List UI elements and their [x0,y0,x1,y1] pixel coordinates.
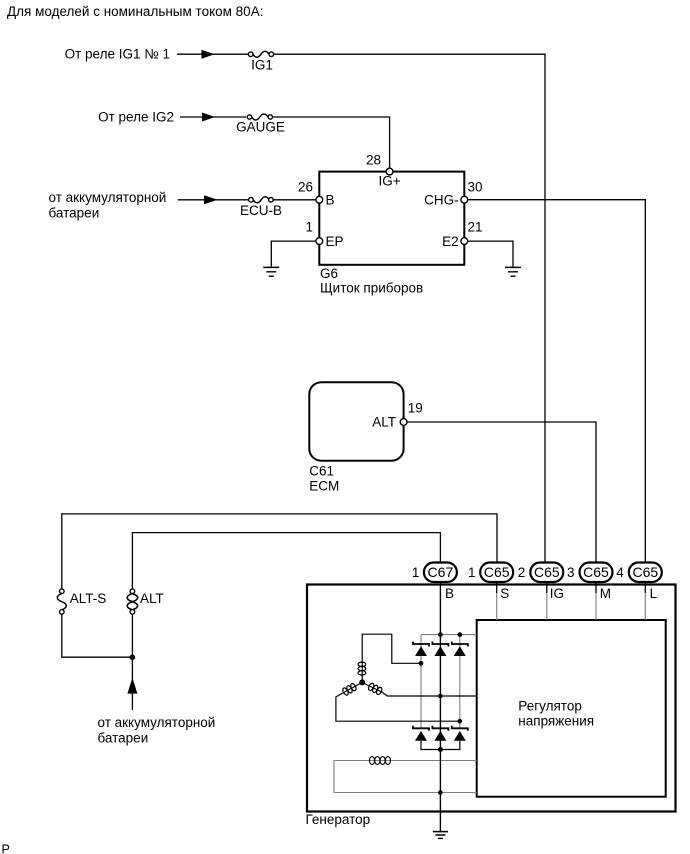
svg-text:1: 1 [412,565,420,580]
svg-text:От реле IG2: От реле IG2 [98,110,174,125]
svg-text:3: 3 [567,565,575,580]
svg-text:От реле IG1 № 1: От реле IG1 № 1 [65,47,170,62]
svg-text:батареи: батареи [49,206,100,221]
svg-text:Для моделей с номинальным токо: Для моделей с номинальным током 80А: [7,4,263,19]
svg-text:C61: C61 [309,464,334,479]
svg-text:2: 2 [518,565,526,580]
svg-text:IG: IG [550,586,564,601]
svg-text:C65: C65 [583,564,609,580]
svg-text:30: 30 [468,180,483,195]
svg-text:батареи: батареи [98,731,149,746]
svg-text:EP: EP [326,234,344,249]
svg-text:ECU-B: ECU-B [240,203,282,218]
svg-text:Регулятор: Регулятор [518,699,582,714]
svg-text:IG+: IG+ [379,174,401,189]
svg-text:от аккумуляторной: от аккумуляторной [98,715,216,730]
svg-text:21: 21 [468,220,483,235]
svg-text:P: P [2,843,10,854]
svg-text:S: S [500,586,509,601]
svg-text:C65: C65 [484,564,510,580]
svg-text:ALT: ALT [372,414,396,429]
svg-text:C65: C65 [632,564,658,580]
svg-text:напряжения: напряжения [518,714,594,729]
svg-text:ALT: ALT [140,591,164,606]
svg-text:E2: E2 [442,234,459,249]
svg-text:C67: C67 [428,564,454,580]
svg-text:L: L [650,586,658,601]
svg-text:28: 28 [366,153,381,168]
svg-text:C65: C65 [534,564,560,580]
svg-text:1: 1 [305,220,313,235]
svg-text:19: 19 [408,401,423,416]
svg-text:B: B [326,193,335,208]
svg-text:IG1: IG1 [251,58,273,73]
svg-text:GAUGE: GAUGE [236,120,285,135]
svg-text:B: B [445,586,454,601]
svg-text:4: 4 [616,565,624,580]
svg-text:Генератор: Генератор [306,812,371,827]
svg-text:от аккумуляторной: от аккумуляторной [49,190,167,205]
svg-text:M: M [600,586,611,601]
svg-text:ALT-S: ALT-S [70,591,107,606]
svg-text:26: 26 [298,180,313,195]
svg-text:CHG-: CHG- [424,193,459,208]
svg-text:G6: G6 [320,266,338,281]
svg-text:1: 1 [468,565,476,580]
svg-text:ECM: ECM [309,479,339,494]
svg-text:Щиток приборов: Щиток приборов [320,281,423,296]
